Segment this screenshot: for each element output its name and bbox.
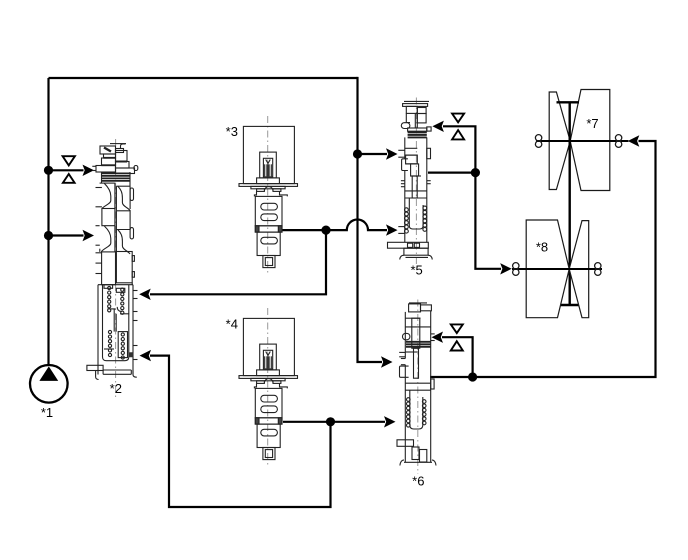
- bearings of *7: [535, 135, 621, 148]
- svg-text:*2: *2: [110, 381, 122, 396]
- arrow into *8 left bearing: [500, 263, 512, 274]
- upper port ticks (left): [398, 149, 405, 151]
- inlet port ticks: [92, 165, 96, 167]
- bottom block: [404, 248, 428, 255]
- svg-text:*8: *8: [536, 240, 548, 255]
- arrow into *5 upper-left port: [386, 148, 398, 159]
- svg-text:*7: *7: [586, 116, 598, 131]
- striped bands: [406, 341, 431, 343]
- left ticks: [399, 351, 405, 353]
- spool land tops: [100, 182, 115, 184]
- wire: branch from *3 output down and into *2 right port: [150, 230, 326, 294]
- arrow into *2 lower-right port: [140, 350, 152, 361]
- left side ticks: [96, 187, 102, 189]
- top ticks and cap: [404, 100, 429, 102]
- right tabs on block: [132, 256, 134, 262]
- accumulator triangles at *2 inlet: [63, 156, 75, 183]
- arrow into *5 lower-left port: [386, 224, 398, 235]
- bottom plate: [103, 369, 131, 371]
- upper body: [255, 196, 282, 225]
- primary pulley *7: [549, 90, 610, 191]
- right rounded tabs: [130, 188, 133, 201]
- solenoid valve *3: [239, 116, 298, 273]
- armature dome and ears: [264, 187, 273, 191]
- retainer rect upper: [104, 285, 113, 289]
- shaft of *8: [512, 268, 602, 270]
- flange strips: [239, 184, 298, 187]
- wire: right riser down to *6 inlet: [358, 77, 383, 362]
- dark port at lower arrow: [129, 352, 134, 357]
- right hook: [133, 371, 137, 378]
- left lug ring: [401, 123, 410, 129]
- svg-text:*5: *5: [410, 263, 422, 278]
- junction on left riser (lower *2 feed): [44, 231, 53, 240]
- neck: [254, 191, 287, 196]
- middle block 2: [102, 252, 116, 285]
- wire: branch into *2 left upper port: [49, 169, 84, 171]
- wire: junction above *5 right output into *5 top port: [443, 126, 475, 173]
- right port ticks (top arrow): [431, 333, 435, 335]
- secondary pulley *8: [526, 220, 589, 318]
- lower spring right: [121, 333, 124, 336]
- plunger inner: [263, 158, 272, 177]
- left port ticks (mid arrow): [401, 358, 405, 360]
- tip: [263, 256, 275, 268]
- bottom inner rects: [412, 447, 419, 460]
- striped bands: [101, 172, 103, 183]
- striped bands: [408, 131, 427, 133]
- wire: *3 output with hop over riser, to *5 lower-left port: [281, 220, 387, 231]
- shaft of *7: [536, 140, 628, 142]
- svg-text:*6: *6: [412, 474, 424, 489]
- junction on left riser (upper *2 feed): [44, 166, 53, 175]
- inner stems: [412, 318, 420, 348]
- centerline: [267, 116, 269, 273]
- spring chamber: [409, 198, 423, 229]
- svg-text:*1: *1: [41, 405, 53, 420]
- top cap cluster: [110, 143, 126, 145]
- wire: top horizontal run: [49, 77, 358, 79]
- lower spring left: [108, 330, 111, 333]
- lower port ticks (left): [398, 226, 405, 228]
- secondary pressure modulator valve *6: [397, 300, 436, 475]
- arrow into *2 left upper port: [83, 165, 95, 176]
- junction at *6 right output: [468, 372, 477, 381]
- arrow into *6 top port: [432, 332, 444, 343]
- wire: *6 top port feed: [442, 337, 473, 378]
- left C-notch: [402, 159, 408, 171]
- left cup 1: [102, 183, 115, 225]
- bearings of *8: [513, 263, 601, 276]
- wire: down from *5 output junction to *8 shaft: [475, 173, 501, 269]
- accumulator triangles at *5 top port: [452, 114, 464, 140]
- left cup 2: [102, 226, 111, 252]
- pressure control valve *2: [87, 139, 138, 399]
- spool stem verticals: [114, 183, 116, 252]
- mid stem: [113, 309, 115, 332]
- accumulator triangles at *6 top port: [451, 324, 463, 350]
- wire: branch from *4 output down, across bottom, up into *2 lower-right port: [150, 356, 331, 507]
- junction at *5 right output: [471, 168, 480, 177]
- belt: [557, 102, 580, 305]
- wire: pump to top-left riser: [47, 78, 49, 366]
- wire: *4 output to *6 lower-left port: [283, 421, 385, 423]
- junction on *4 output: [326, 417, 335, 426]
- collar: [408, 128, 427, 131]
- arrow into *6 lower-left port: [384, 416, 396, 427]
- coil box: [243, 126, 294, 183]
- svg-text:*3: *3: [226, 124, 238, 139]
- foot plate: [388, 242, 429, 248]
- inner land and stem: [406, 155, 418, 164]
- lower body: [257, 232, 280, 255]
- centerline of *6: [417, 300, 419, 475]
- arrow into *5 top port: [432, 121, 444, 132]
- mid side ticks: [401, 180, 405, 182]
- left C-notch: [400, 366, 409, 377]
- left foot: [397, 440, 414, 447]
- spring chamber: [410, 390, 423, 429]
- arrow into *2 upper-right port: [139, 289, 151, 300]
- solenoid valve *4: [239, 308, 298, 465]
- left lug: [403, 333, 410, 339]
- junction on *3 output: [321, 226, 330, 235]
- arrow into *2 left lower port: [83, 230, 95, 241]
- bottom bar and flares: [404, 461, 432, 463]
- right port marks: [133, 290, 138, 292]
- right cup 1: [116, 186, 130, 229]
- primary pressure modulator valve *5: [388, 98, 433, 266]
- top cap: [409, 302, 427, 304]
- springs: [405, 208, 409, 212]
- dividers: [405, 147, 418, 149]
- right tab: [431, 379, 434, 389]
- spring housing outer: [97, 285, 99, 375]
- inner chamber: [103, 285, 129, 361]
- lower inner box: [118, 332, 127, 358]
- pump *1: [30, 365, 68, 403]
- arrow into *6 upper-left port: [381, 356, 393, 367]
- arrow into *7 right bearing: [628, 135, 640, 146]
- right tab: [427, 148, 431, 158]
- wire: *6 right output across to far-right riser and up to *7 bearing: [430, 141, 656, 377]
- right cup 2: [118, 230, 130, 254]
- springs: [407, 398, 411, 402]
- upper spring right: [121, 288, 124, 291]
- centerline of *2: [115, 139, 117, 399]
- junction on right riser: [353, 149, 362, 158]
- plunger outer: [260, 152, 277, 178]
- left foot: [87, 365, 103, 370]
- centerline of *5: [415, 98, 417, 266]
- body outline: [404, 312, 406, 359]
- dividers: [405, 317, 420, 319]
- upper spring left: [108, 286, 111, 289]
- wire: *5 right output: [428, 172, 475, 174]
- wire: branch into *2 left lower port: [49, 234, 84, 236]
- body outline: [404, 137, 406, 158]
- band: [255, 226, 282, 232]
- svg-text:*4: *4: [226, 317, 238, 332]
- wire: branch to *5 upper-left port: [358, 153, 388, 155]
